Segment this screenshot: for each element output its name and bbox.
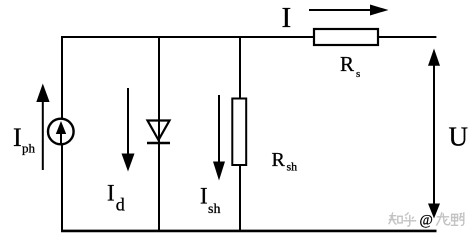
svg-text:R: R <box>340 52 354 76</box>
svg-text:I: I <box>107 181 115 206</box>
svg-text:I: I <box>282 2 292 34</box>
svg-text:s: s <box>356 68 360 80</box>
svg-text:R: R <box>272 149 286 171</box>
svg-text:U: U <box>449 121 469 151</box>
svg-text:I: I <box>13 123 22 152</box>
svg-text:sh: sh <box>287 160 298 174</box>
svg-text:sh: sh <box>208 202 220 217</box>
svg-text:@: @ <box>420 213 433 229</box>
svg-text:ph: ph <box>22 141 36 156</box>
svg-text:d: d <box>116 195 125 215</box>
svg-text:I: I <box>200 184 208 209</box>
